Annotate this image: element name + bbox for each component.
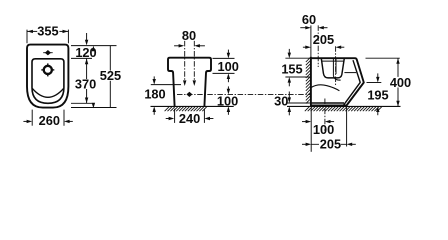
svg-text:260: 260 (39, 113, 60, 128)
ext line top edge (A) (71, 45, 117, 47)
bowl section (side) (321, 58, 344, 78)
dim 100 (bottom right of front) arrows (227, 86, 229, 90)
dim 155 arrows (288, 49, 290, 54)
drain symbol (front view) (186, 92, 192, 97)
ext line bowl top (B) (71, 57, 92, 59)
dim 525 line (109, 46, 111, 108)
trap shell curve (311, 85, 340, 91)
wall line (310, 57, 312, 107)
label 205 below floor (319, 137, 341, 152)
svg-text:80: 80 (182, 28, 196, 43)
dim 60 arrows (300, 27, 306, 29)
shelf line right of bowl (344, 72, 356, 74)
centreline 60 from wall (317, 25, 319, 67)
bidet front outline (168, 58, 211, 107)
base recess line (311, 102, 344, 104)
rim deck far edge (322, 60, 344, 62)
dim 260 arrows (23, 120, 28, 122)
dimension 355 line (27, 30, 37, 32)
dim 370 line (86, 59, 88, 104)
tap hole symbol (45, 50, 51, 55)
dim 30 ext line (287, 102, 310, 104)
dimension 355 ext lines (26, 30, 28, 44)
dim 195 arrows (377, 73, 379, 78)
ground line (front view) (151, 105, 234, 107)
dim 260 ext lines (31, 110, 33, 126)
below floor ext lines (310, 108, 312, 152)
svg-text:525: 525 (100, 68, 121, 83)
svg-text:30: 30 (274, 94, 288, 109)
label 180 (144, 87, 165, 102)
dim 80 arrows (174, 45, 180, 47)
dim 100 (below floor) arrows (302, 121, 307, 123)
svg-text:195: 195 (367, 87, 388, 102)
wall hatch (306, 57, 311, 103)
tap spout foot (333, 76, 340, 81)
bidet side profile outline (311, 58, 364, 105)
dim 100 (top) arrows (227, 50, 229, 54)
svg-text:180: 180 (144, 87, 165, 102)
ext line outer bottom (71, 107, 117, 109)
dim 155 ext lines (285, 57, 310, 59)
dim 100 (top right of front) ext lines (213, 57, 235, 59)
svg-text:240: 240 (179, 111, 200, 126)
svg-text:60: 60 (302, 12, 316, 27)
floor line (side view) (287, 105, 401, 107)
tap tube (332, 58, 334, 75)
drain symbol ring (44, 66, 52, 74)
dim 240 ext lines (174, 109, 176, 123)
svg-text:100: 100 (218, 59, 239, 74)
dim 195 knee ext line (367, 82, 382, 84)
dim 400 top ext line (366, 57, 400, 59)
svg-text:205: 205 (313, 32, 334, 47)
dim 240 arrows (166, 118, 171, 120)
dim 180 arrows (153, 76, 155, 80)
svg-text:100: 100 (313, 122, 334, 137)
inner front wall double line (344, 60, 361, 105)
drain height centreline (100) shared to wall (177, 93, 311, 95)
svg-text:120: 120 (75, 45, 96, 60)
tap centrelines (80 apart) (185, 41, 195, 81)
dim 30 arrows (288, 92, 290, 98)
wall extension line up (310, 25, 312, 57)
svg-text:355: 355 (37, 24, 58, 39)
svg-text:205: 205 (320, 137, 341, 152)
svg-text:155: 155 (281, 61, 302, 76)
centreline 205 from wall (tap) (335, 46, 337, 86)
label 370 (75, 76, 96, 91)
svg-text:370: 370 (75, 76, 96, 91)
drain symbol ticks (47, 63, 49, 67)
dim 205 (top) arrows (303, 46, 307, 48)
floor hatch (side view) (305, 107, 382, 111)
bidet outer body (plan) (27, 45, 68, 108)
dim 205 (below floor) line (311, 143, 346, 145)
ext line bowl bottom (C) (71, 102, 92, 104)
dim 180 ext line (151, 84, 181, 86)
dim 400 line (397, 58, 399, 106)
ground hatch (front view) (165, 107, 207, 111)
label 400 (389, 75, 411, 90)
dim 120 arrows (86, 33, 88, 41)
label 155 (281, 61, 302, 76)
svg-text:100: 100 (217, 93, 238, 108)
bidet inner bowl (plan) (32, 59, 64, 104)
tap hole centre line (43, 52, 53, 54)
label 525 (100, 68, 122, 83)
svg-text:400: 400 (390, 75, 411, 90)
bowl front smile arc (32, 88, 64, 97)
